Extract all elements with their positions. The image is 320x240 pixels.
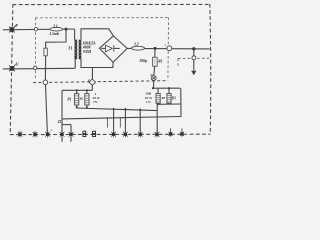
svg-text:NZH: NZH: [82, 50, 92, 54]
svg-text:L1: L1: [52, 23, 57, 28]
svg-text:P3: P3: [172, 96, 176, 100]
svg-text:R3: R3: [162, 96, 166, 100]
svg-text:1.5mh: 1.5mh: [49, 32, 59, 36]
svg-text:R1: R1: [158, 59, 162, 63]
svg-text:Z1: Z1: [57, 120, 62, 124]
svg-text:L2: L2: [133, 42, 138, 47]
svg-text:t: t: [51, 128, 52, 132]
svg-text:R2: R2: [80, 97, 84, 101]
svg-text:100µ: 100µ: [139, 59, 148, 63]
svg-text:7%: 7%: [93, 100, 98, 104]
svg-text:T1: T1: [68, 45, 72, 50]
svg-text:P1: P1: [67, 98, 71, 102]
svg-text:1%: 1%: [146, 100, 151, 104]
